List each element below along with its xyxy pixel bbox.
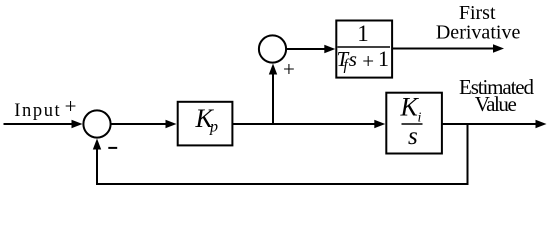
svg-text:+: + bbox=[362, 49, 374, 73]
arrowhead up into S2 bbox=[269, 64, 277, 75]
block Kp bbox=[178, 102, 233, 146]
block 1/(Tf s+1) bbox=[336, 21, 392, 78]
wire Kp to Ki/s bbox=[232, 123, 376, 125]
svg-text:+: + bbox=[65, 94, 77, 118]
svg-text:Value: Value bbox=[475, 92, 517, 116]
wire: input line bbox=[4, 123, 74, 125]
summing junction S1 bbox=[83, 110, 110, 137]
svg-text:+: + bbox=[283, 57, 295, 81]
fraction bar Tf block bbox=[337, 46, 390, 48]
wire S1 to Kp bbox=[112, 123, 168, 125]
svg-text:Derivative: Derivative bbox=[436, 21, 521, 43]
arrowhead Estimated Value bbox=[536, 120, 547, 128]
arrowhead into Tf block bbox=[324, 45, 335, 53]
arrowhead into Kp bbox=[166, 120, 177, 128]
arrowhead into summing junction S1 bbox=[72, 120, 83, 128]
wire Ki/s to output bbox=[442, 123, 537, 125]
svg-text:Input: Input bbox=[14, 101, 60, 121]
svg-text:1: 1 bbox=[357, 21, 369, 46]
arrowhead up into S1 bbox=[93, 139, 101, 150]
wire: branch up to S2 bbox=[272, 67, 274, 124]
arrowhead First Derivative bbox=[493, 44, 504, 52]
svg-text:s: s bbox=[408, 123, 418, 150]
label minus (feedback sign) bbox=[108, 147, 117, 149]
wire: feedback branch down bbox=[467, 123, 469, 185]
svg-text:i: i bbox=[418, 111, 422, 126]
summing junction S2 bbox=[259, 35, 286, 62]
svg-text:1: 1 bbox=[378, 46, 389, 71]
fraction bar Ki/s bbox=[402, 123, 423, 125]
block Ki/s bbox=[386, 93, 442, 154]
wire: feedback bottom bbox=[96, 183, 469, 185]
svg-text:s: s bbox=[349, 47, 357, 71]
wire: feedback up into S1 bbox=[96, 142, 98, 185]
svg-text:p: p bbox=[209, 119, 218, 136]
wire S2 to Tf block bbox=[287, 48, 326, 50]
svg-text:K: K bbox=[400, 93, 420, 122]
arrowhead into Ki/s bbox=[374, 120, 385, 128]
wire Tf block to First Derivative arrow bbox=[392, 48, 494, 50]
